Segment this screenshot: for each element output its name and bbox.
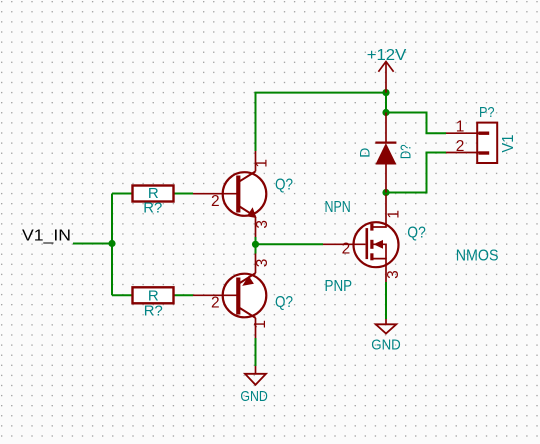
resistor R2 (133, 287, 174, 319)
svg-text:1: 1 (252, 320, 269, 329)
svg-text:Q?: Q? (275, 177, 293, 194)
svg-text:R?: R? (144, 302, 163, 319)
wire R1 to Q1 base (174, 193, 194, 195)
transistor Q1 (NPN) (193, 151, 271, 237)
svg-text:3: 3 (254, 220, 271, 229)
svg-text:+12V: +12V (367, 47, 407, 64)
svg-text:V1_IN: V1_IN (22, 228, 71, 245)
svg-text:1: 1 (456, 119, 465, 136)
wire Q1 collector up and right to rail (256, 93, 387, 151)
svg-text:R?: R? (143, 199, 162, 216)
junction A (382, 89, 389, 96)
gate bar (365, 228, 368, 259)
svg-text:V1: V1 (500, 135, 517, 153)
bulk link (373, 244, 386, 258)
ground symbol left (240, 366, 268, 405)
svg-text:NMOS: NMOS (456, 247, 499, 264)
wire to R1 left (112, 193, 133, 195)
drain link (373, 195, 386, 228)
svg-text:2: 2 (211, 295, 220, 312)
bulk arrow (373, 240, 383, 249)
svg-text:2: 2 (456, 138, 465, 155)
gate pin (323, 243, 365, 245)
ground symbol right (371, 319, 401, 354)
wire vertical branch at x=112 (111, 194, 113, 296)
connector P1 (446, 104, 517, 163)
source link (373, 259, 386, 282)
channel top (370, 224, 373, 231)
channel middle (370, 240, 373, 249)
wire junction B to connector pin 1 (386, 113, 446, 134)
svg-text:Q?: Q? (275, 294, 293, 311)
junction C (382, 189, 389, 196)
junction B (382, 109, 389, 116)
svg-text:1: 1 (254, 159, 271, 168)
transistor Q3 (NMOS) (323, 195, 403, 283)
power +12V symbol (378, 62, 393, 93)
svg-text:GND: GND (240, 388, 268, 405)
svg-text:Q?: Q? (407, 225, 426, 242)
wire Q3 source to GND (385, 282, 387, 319)
transistor Q2 (PNP) (193, 254, 271, 339)
svg-text:2: 2 (342, 240, 351, 257)
diode D1 (356, 113, 414, 193)
wire V1_IN to junction E (73, 243, 113, 245)
svg-text:3: 3 (385, 270, 402, 279)
svg-text:NPN: NPN (325, 199, 351, 216)
wire rail junction A to B (385, 93, 387, 113)
junction D (252, 241, 259, 248)
wire R2 to Q2 base (174, 294, 194, 296)
wire connector pin 2 to junction C (386, 153, 446, 193)
svg-text:P?: P? (479, 104, 495, 121)
pin 1 line (446, 132, 479, 134)
channel bottom (370, 253, 373, 260)
wire Q1 emitter to Q2 collector through junction D (255, 237, 257, 254)
svg-text:D?: D? (398, 144, 415, 159)
resistor R1 (133, 185, 174, 216)
junction E (108, 240, 115, 247)
wire junction D to Q3 gate (256, 243, 324, 245)
wire to R2 left (112, 294, 133, 296)
svg-text:GND: GND (371, 337, 401, 354)
svg-text:PNP: PNP (325, 278, 353, 295)
svg-text:D: D (356, 148, 372, 158)
svg-text:1: 1 (386, 210, 403, 219)
pin 2 line (446, 152, 479, 154)
svg-text:3: 3 (254, 259, 271, 268)
svg-text:2: 2 (211, 193, 220, 210)
wire Q2 pin1 to GND (255, 338, 257, 366)
